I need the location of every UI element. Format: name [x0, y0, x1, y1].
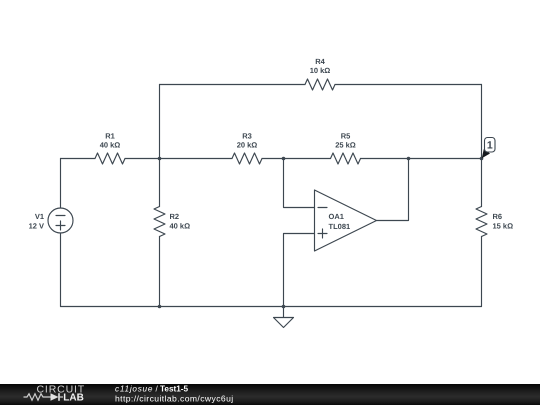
svg-text:12 V: 12 V	[29, 222, 44, 231]
node junction R3/R5/op-amp	[282, 157, 286, 161]
wire main rail V1 to R1	[61, 158, 96, 160]
wire R6 top lead	[481, 159, 483, 207]
svg-text:20 kΩ: 20 kΩ	[237, 140, 258, 149]
resistor R6 zigzag	[476, 207, 487, 237]
resistor R3 zigzag	[232, 153, 262, 164]
svg-text:http://circuitlab.com/cwyc6uj: http://circuitlab.com/cwyc6uj	[115, 394, 234, 404]
wire op-amp inverting input	[284, 159, 315, 208]
op-amp minus input symbol	[318, 207, 327, 209]
wire V1 bottom lead	[60, 233, 62, 307]
wire R6 bottom lead	[481, 237, 483, 307]
op-amp OA1 triangle	[315, 190, 377, 251]
node junction R2 bottom	[158, 305, 162, 309]
svg-text:R5: R5	[341, 131, 351, 140]
svg-text:TL081: TL081	[329, 222, 351, 231]
node 1 junction right rail	[480, 157, 484, 161]
wire R5 to right rail	[361, 158, 482, 160]
svg-text:R3: R3	[242, 131, 252, 140]
node junction ground	[282, 305, 286, 309]
svg-text:R4: R4	[315, 57, 325, 66]
wire bottom rail	[61, 306, 482, 308]
svg-text:15 kΩ: 15 kΩ	[493, 221, 514, 230]
footer bar	[0, 384, 540, 405]
resistor R5 zigzag	[331, 153, 361, 164]
svg-text:R2: R2	[170, 212, 180, 221]
svg-text:25 kΩ: 25 kΩ	[335, 140, 356, 149]
wire R2 top lead	[159, 159, 161, 207]
wire op-amp non-inverting input	[284, 234, 315, 307]
svg-text:40 kΩ: 40 kΩ	[170, 221, 191, 230]
wire R3 to R5	[262, 158, 331, 160]
wire top rail right	[335, 84, 482, 86]
svg-text:LAB: LAB	[63, 392, 84, 403]
svg-text:c11josue / Test1-5: c11josue / Test1-5	[115, 385, 189, 394]
V1 minus symbol	[56, 215, 65, 217]
svg-text:V1: V1	[35, 212, 44, 221]
wire R1 to R3	[125, 158, 232, 160]
voltage source V1 circle	[48, 208, 73, 233]
svg-text:40 kΩ: 40 kΩ	[100, 140, 121, 149]
node junction output	[407, 157, 411, 161]
resistor R1 zigzag	[95, 153, 125, 164]
svg-text:10 kΩ: 10 kΩ	[310, 66, 331, 75]
wire V1 top lead	[60, 159, 62, 209]
wire R2 bottom lead	[159, 237, 161, 307]
ground symbol	[283, 307, 285, 318]
op-amp plus input symbol	[318, 233, 327, 235]
svg-text:R6: R6	[493, 212, 503, 221]
node junction R1/R2	[158, 157, 162, 161]
svg-text:1: 1	[487, 140, 493, 152]
svg-text:OA1: OA1	[329, 212, 344, 221]
logo resistor waveform	[24, 394, 51, 400]
resistor R2 zigzag	[154, 207, 165, 237]
wire top rail left	[160, 84, 306, 86]
svg-text:R1: R1	[105, 131, 115, 140]
wire op-amp output	[377, 159, 409, 221]
logo diode	[51, 393, 59, 401]
wire left vertical (top rail to main rail)	[159, 85, 161, 159]
V1 plus symbol	[56, 225, 65, 227]
wire right vertical upper	[481, 85, 483, 159]
node flag 1	[482, 138, 495, 159]
resistor R4 zigzag	[305, 79, 335, 90]
